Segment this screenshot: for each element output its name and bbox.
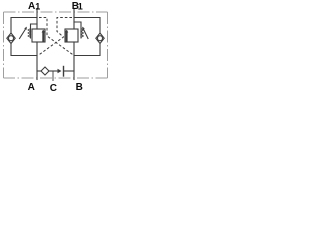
svg-text:B: B [76, 82, 83, 93]
svg-text:A: A [28, 82, 35, 93]
svg-text:A: A [28, 1, 35, 12]
svg-text:1: 1 [78, 1, 83, 11]
svg-text:1: 1 [35, 1, 40, 11]
svg-text:C: C [50, 83, 57, 93]
